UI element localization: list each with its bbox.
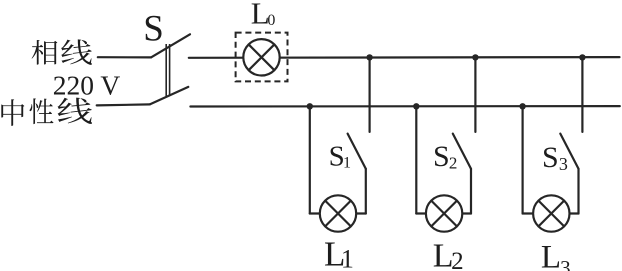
svg-text:S1: S1 (329, 141, 351, 173)
svg-text:L2: L2 (433, 237, 464, 271)
svg-text:S: S (143, 9, 164, 50)
svg-text:L0: L0 (251, 0, 276, 31)
svg-text:S2: S2 (433, 140, 457, 173)
svg-text:220 V: 220 V (53, 70, 121, 101)
svg-text:L1: L1 (324, 234, 354, 271)
svg-text:L3: L3 (541, 240, 571, 271)
svg-text:S3: S3 (542, 141, 568, 174)
